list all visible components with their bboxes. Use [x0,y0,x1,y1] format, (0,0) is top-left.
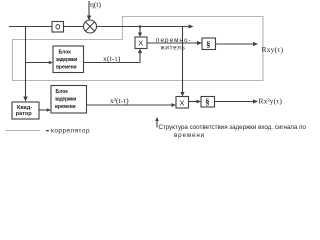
wire squarer to delay2 [39,109,48,111]
legend dash [46,130,49,132]
svg-text:задержки: задержки [56,57,77,63]
delay block 2 [51,86,87,114]
svg-text:Блок: Блок [56,89,69,95]
node junction X1 [139,25,142,28]
box o glyph [56,25,60,30]
svg-text:коррелятор: коррелятор [51,128,90,135]
svg-text:времени: времени [56,65,76,71]
wire top arrow into X1 [139,27,141,34]
correlator outline (grey) [13,17,264,81]
wire box-o to multiplier [64,26,84,28]
wire X1 to integrator1 [147,42,199,44]
svg-text:x(t-τ): x(t-τ) [103,54,121,63]
arrowhead into squarer [23,97,27,102]
svg-text:ратор: ратор [16,111,32,117]
svg-text:Структура соответствия задержк: Структура соответствия задержки вход. си… [159,124,307,131]
arrowhead into integrator2 [197,100,202,104]
wire x(t-tau) line [84,52,141,63]
arrowhead into X2 top [180,92,184,97]
arrowhead into integrator1 [197,41,202,45]
arrowhead into delay1 [49,61,53,64]
svg-text:η(t): η(t) [90,0,102,9]
annotation up arrow [156,120,158,128]
arrowhead into X2 left [172,103,177,107]
arrowhead eta into multiplier [87,16,91,21]
delay block 1 [53,46,84,73]
arrowhead main line end [189,24,194,28]
arrowhead Rx2y output [253,99,258,103]
wire left branch vertical [25,27,27,99]
svg-text:x²(t-τ): x²(t-τ) [110,96,129,105]
svg-text:X: X [138,39,143,48]
multiplier X1 box [135,37,147,49]
integrator box 2 [201,97,215,108]
integrator box 1 [202,38,216,50]
arrowhead Rxy output [253,42,258,46]
wire eta input [88,1,90,17]
arrowhead into X1 bottom [138,49,142,54]
arrowhead into delay2 [47,108,51,111]
svg-text:Rxy(τ): Rxy(τ) [262,45,284,54]
svg-text:времени: времени [174,132,205,139]
wire main input line [9,26,52,28]
wire integrator1 output [216,43,254,45]
wire branch to delay1 [26,62,51,64]
svg-text:§: § [205,97,209,107]
svg-text:Блок: Блок [59,50,72,56]
squarer box [12,102,39,119]
svg-text:X: X [180,99,185,108]
multiplier circle [84,20,97,33]
svg-text:житель: житель [161,45,186,52]
svg-text:§: § [206,39,210,49]
wire integrator2 output [215,101,254,103]
legend grey line [5,130,40,132]
svg-text:задержки: задержки [55,97,76,103]
box o [52,22,64,33]
svg-text:перемно-: перемно- [156,37,192,44]
wire right branch vertical [182,27,184,94]
arrowhead into X1 top [138,33,142,38]
arrowhead annotation up [155,117,159,121]
wire x2(t-tau) line [87,104,173,106]
wire X2 to integrator2 [189,101,198,103]
multiplier X2 box [176,97,189,109]
svg-text:времени: времени [55,104,75,110]
wire multiplier to right arrow [97,26,191,28]
svg-text:Rx²y(τ): Rx²y(τ) [259,97,283,106]
